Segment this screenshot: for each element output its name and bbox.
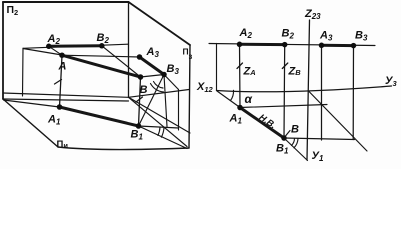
svg-text:B2: B2 [282, 28, 295, 41]
svg-text:A1: A1 [229, 113, 243, 126]
svg-text:B2: B2 [97, 32, 110, 45]
svg-text:B1: B1 [276, 143, 289, 156]
svg-text:B1: B1 [131, 129, 144, 142]
svg-text:У3: У3 [385, 75, 397, 88]
svg-text:A2: A2 [239, 27, 253, 40]
svg-text:B: B [291, 124, 299, 136]
svg-text:A1: A1 [47, 114, 61, 127]
svg-text:B: B [140, 84, 148, 96]
svg-text:B3: B3 [167, 63, 180, 76]
svg-text:B3: B3 [355, 30, 368, 43]
svg-text:A3: A3 [319, 30, 333, 43]
svg-text:Z23: Z23 [304, 8, 321, 21]
svg-text:У1: У1 [312, 150, 324, 163]
svg-text:α: α [245, 92, 253, 106]
svg-text:Пи: Пи [57, 139, 69, 150]
svg-text:X12: X12 [196, 81, 214, 94]
svg-text:A3: A3 [146, 46, 160, 59]
svg-text:П2: П2 [7, 4, 19, 17]
svg-text:П3: П3 [183, 47, 193, 62]
svg-text:ZA: ZA [243, 66, 256, 78]
svg-text:A: A [58, 61, 67, 73]
svg-text:A2: A2 [47, 33, 61, 46]
svg-text:ZB: ZB [288, 66, 302, 78]
